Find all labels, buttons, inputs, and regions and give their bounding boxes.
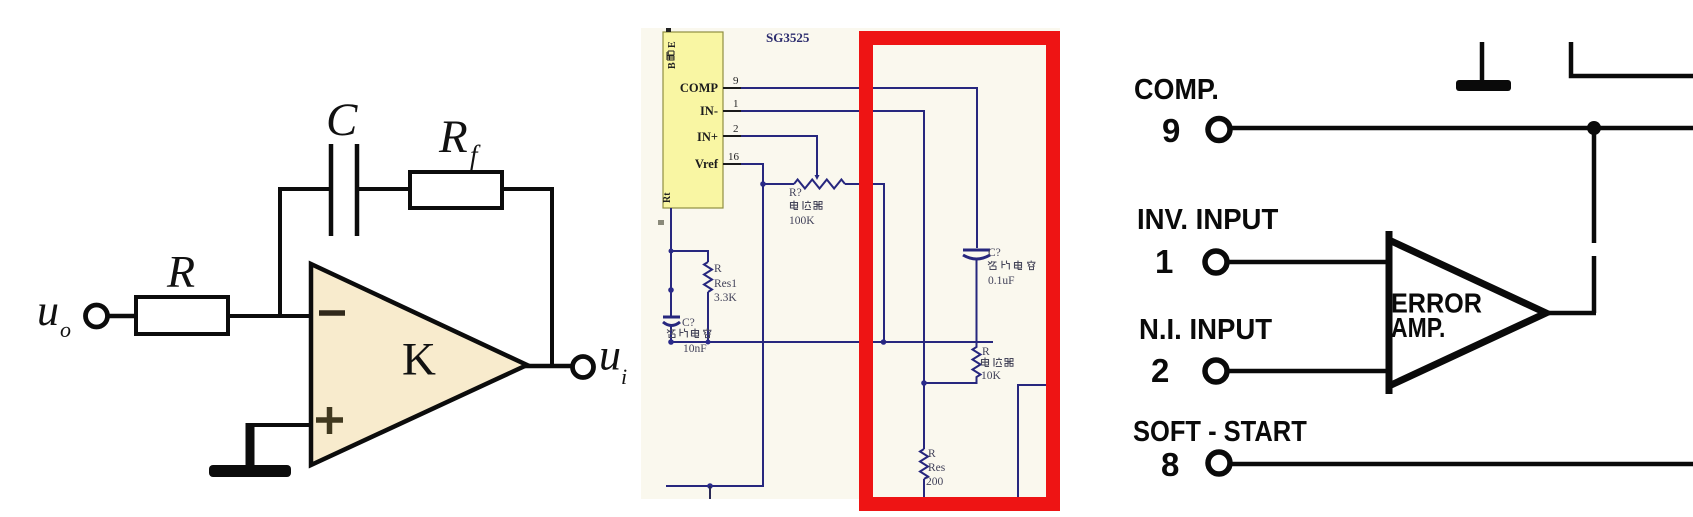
wire input right xyxy=(228,314,311,318)
corner wire top right xyxy=(1571,42,1693,76)
wire pot to right vertical xyxy=(845,184,884,342)
svg-text:2: 2 xyxy=(733,123,739,135)
wire gap artifact xyxy=(1590,243,1598,256)
wire Res1 to bus xyxy=(707,292,709,342)
svg-text:IN-: IN- xyxy=(700,104,718,118)
schematic background xyxy=(641,28,1060,499)
node junction cap bus xyxy=(668,339,674,345)
wire soft start xyxy=(1232,462,1693,467)
node junction Vref xyxy=(760,181,766,187)
pin 9 terminal xyxy=(1208,119,1230,141)
pin stub 9 xyxy=(723,87,741,89)
svg-text:R: R xyxy=(166,246,195,297)
svg-text:R: R xyxy=(714,263,722,275)
wire feedback vertical xyxy=(1592,128,1597,313)
wire capacitor to Rf xyxy=(357,187,410,191)
svg-text:8: 8 xyxy=(1161,446,1179,483)
wire input left xyxy=(107,314,137,319)
svg-text:1: 1 xyxy=(733,98,739,110)
potentiometer R? 100K xyxy=(794,180,845,189)
svg-text:K: K xyxy=(402,334,436,386)
resistor R xyxy=(136,297,228,334)
svg-text:200: 200 xyxy=(926,476,944,488)
wire cap 10nF to bus xyxy=(670,326,672,342)
capacitor C? 0.1uF xyxy=(963,250,990,259)
ground xyxy=(209,423,291,477)
svg-text:9: 9 xyxy=(1162,112,1180,149)
svg-text:R: R xyxy=(438,111,468,163)
wire stub below bottom node xyxy=(709,486,711,499)
capacitor C? 10nF xyxy=(663,317,680,326)
wire Res200 down xyxy=(923,479,925,499)
wire non-inverting input xyxy=(249,423,311,427)
svg-text:SG3525: SG3525 xyxy=(766,30,810,45)
node junction 10K xyxy=(921,380,927,386)
svg-text:AMP.: AMP. xyxy=(1391,313,1445,344)
pin stub 16 xyxy=(723,163,741,165)
wire Vref branch down xyxy=(666,184,763,486)
pin 1 terminal xyxy=(1205,251,1227,273)
svg-text:Res1: Res1 xyxy=(714,278,737,290)
label R? 100K xyxy=(789,187,822,227)
svg-text:Res: Res xyxy=(928,462,946,474)
svg-text:R?: R? xyxy=(789,187,802,199)
ground top xyxy=(1456,42,1511,91)
svg-text:Vref: Vref xyxy=(695,157,719,171)
svg-text:100K: 100K xyxy=(789,215,815,227)
wire IN- pin1 xyxy=(741,111,924,449)
svg-text:INV. INPUT: INV. INPUT xyxy=(1137,202,1278,235)
svg-text:i: i xyxy=(621,364,627,389)
svg-text:16: 16 xyxy=(728,151,740,163)
svg-text:SOFT - START: SOFT - START xyxy=(1133,414,1307,447)
wire IN+ pin2 xyxy=(741,136,817,175)
wire Rf right xyxy=(502,187,554,191)
wire feedback right vertical xyxy=(550,187,554,365)
label C? 10nF xyxy=(667,317,712,355)
svg-text:o: o xyxy=(60,317,71,342)
wire right lower corner xyxy=(1018,385,1046,499)
wire COMP pin9 xyxy=(741,88,977,248)
node ui terminal circle xyxy=(573,357,594,378)
svg-text:COMP.: COMP. xyxy=(1134,73,1219,105)
node uo terminal circle xyxy=(86,305,108,327)
label R Res1 3.3K xyxy=(714,263,737,304)
svg-text:R: R xyxy=(982,346,990,358)
svg-text:N.I. INPUT: N.I. INPUT xyxy=(1139,312,1272,345)
wire 10K bottom to IN- line xyxy=(924,378,977,383)
svg-text:2: 2 xyxy=(1151,352,1169,389)
svg-text:10K: 10K xyxy=(981,370,1002,382)
wire bus horizontal xyxy=(671,341,993,343)
svg-text:B: B xyxy=(667,62,678,69)
capacitor C xyxy=(331,144,357,236)
op-amp plus input sign xyxy=(316,407,343,434)
op-amp K xyxy=(311,264,527,465)
node junction Res1 bus xyxy=(706,340,711,345)
pin 2 terminal xyxy=(1205,360,1227,382)
wire cap to bus xyxy=(976,259,978,343)
pin 8 terminal xyxy=(1208,452,1230,474)
resistor R Res 200 xyxy=(920,449,928,479)
wire op-amp output xyxy=(1546,311,1596,316)
node junction mid xyxy=(668,287,674,293)
svg-text:E: E xyxy=(667,41,678,48)
svg-text:f: f xyxy=(470,140,481,170)
op-amp error amp triangle xyxy=(1389,240,1546,386)
label R 10K xyxy=(981,346,1013,382)
svg-text:9: 9 xyxy=(733,75,739,87)
wire comp xyxy=(1232,126,1693,131)
wire IC bottom branch xyxy=(671,208,708,262)
svg-text:u: u xyxy=(37,286,59,335)
wire output xyxy=(524,364,573,369)
IC corner mark xyxy=(666,28,671,32)
wire top to capacitor xyxy=(278,187,331,191)
node junction jog xyxy=(669,249,674,254)
label R Res 200 xyxy=(926,448,946,488)
svg-text:C?: C? xyxy=(988,247,1001,259)
svg-text:IN+: IN+ xyxy=(697,130,718,144)
IC body SG3525 xyxy=(663,32,723,208)
red highlight box xyxy=(866,38,1053,504)
resistor Rf xyxy=(410,172,502,208)
svg-text:10nF: 10nF xyxy=(683,343,707,355)
potentiometer wiper arrow xyxy=(815,175,820,180)
node junction bus xyxy=(881,339,887,345)
svg-text:u: u xyxy=(599,331,621,380)
node junction bottom xyxy=(707,483,713,489)
rotated pin label B/E left side xyxy=(666,41,678,69)
cut-off designator fragment xyxy=(658,220,664,225)
node junction comp xyxy=(1587,121,1601,135)
svg-text:0.1uF: 0.1uF xyxy=(988,275,1015,287)
svg-text:COMP: COMP xyxy=(680,81,719,95)
op-amp left edge overshoot xyxy=(1386,231,1393,394)
resistor R 10K potentiometer xyxy=(973,343,981,378)
svg-text:C: C xyxy=(326,94,358,146)
svg-text:1: 1 xyxy=(1155,243,1173,280)
pin stub 2 xyxy=(723,135,741,137)
wire IC to cap 10nF xyxy=(670,251,672,317)
svg-text:C?: C? xyxy=(682,317,695,329)
wire feedback left vertical xyxy=(278,187,282,318)
op-amp minus input sign xyxy=(319,310,345,316)
svg-text:3.3K: 3.3K xyxy=(714,292,737,304)
pin stub 1 xyxy=(723,110,741,112)
wire inv input xyxy=(1229,260,1391,265)
label C? 0.1uF xyxy=(988,247,1036,287)
svg-text:Rt: Rt xyxy=(662,192,673,203)
wire ni input xyxy=(1229,369,1391,374)
wire Vref pin16 xyxy=(741,164,794,184)
svg-text:R: R xyxy=(928,448,936,460)
resistor R Res1 3.3K xyxy=(704,262,712,292)
